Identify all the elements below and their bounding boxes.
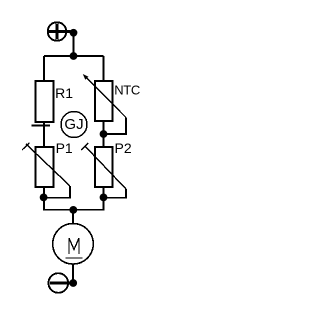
svg-text:R1: R1 bbox=[55, 85, 73, 101]
svg-text:P1: P1 bbox=[56, 140, 73, 156]
svg-text:P2: P2 bbox=[115, 140, 132, 156]
svg-text:NTC: NTC bbox=[114, 82, 140, 97]
svg-text:GJ: GJ bbox=[64, 116, 83, 133]
